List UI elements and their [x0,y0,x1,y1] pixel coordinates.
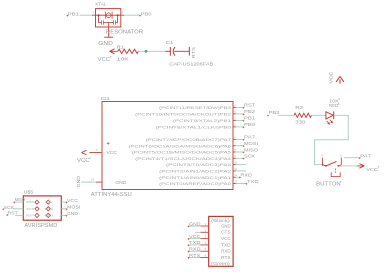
FTDI pin 3 VCC [200,238,208,240]
svg-text:MISO: MISO [15,197,26,202]
junction dot [145,50,148,53]
wire MOSI [236,145,244,147]
wire button to PA7 [344,157,359,159]
svg-text:XTAL: XTAL [95,2,107,8]
svg-text:GND: GND [115,180,126,185]
wire TXD (FTDI) [188,244,200,246]
svg-text:R1: R1 [117,45,125,50]
internal cap right [113,20,115,24]
resonator XTAL body [96,9,121,27]
net label TXD (FTDI) [188,244,190,246]
svg-text:1: 1 [96,148,98,152]
wire RST (ISP) [15,214,23,216]
pin 11 PA2 [233,170,236,172]
origin mark near 10K LED [339,98,340,99]
svg-text:PA7: PA7 [360,154,372,159]
internal cap left [100,20,102,24]
wire LED to button (right/down/left/down) [315,115,349,164]
svg-text:(PCINT10/INT0/OC0A/CKOUT)PB2: (PCINT10/INT0/OC0A/CKOUT)PB2 [135,112,232,117]
svg-text:TXD: TXD [189,240,201,245]
junction dot left [98,14,100,16]
svg-text:VCC: VCC [67,198,79,203]
svg-text:5: 5 [234,110,236,114]
svg-text:PB2: PB2 [269,110,281,115]
wire R2 to LED [312,114,326,116]
ISP pad RST [35,213,39,217]
wire GND pin 14 [81,181,96,183]
wire RXD [236,176,240,178]
wire unlabeled stub [236,164,246,166]
button S1 pin 2 [340,158,342,165]
svg-text:RST: RST [244,103,255,108]
wire button to VCC [339,165,357,167]
svg-text:MISO: MISO [26,200,35,204]
svg-text:2: 2 [340,154,342,158]
power VCC symbol top right [336,76,344,83]
pin 2 resonator to ground [108,27,110,37]
svg-text:(PCINT4/T1/SCL/USCK/ADC4)PA4: (PCINT4/T1/SCL/USCK/ADC4)PA4 [135,156,232,161]
svg-text:(Black): (Black) [211,218,230,223]
svg-text:VCC: VCC [328,71,333,84]
svg-text:MISO: MISO [244,147,258,152]
svg-text:TXD: TXD [221,242,231,247]
svg-text:GND: GND [45,214,54,218]
svg-text:13: 13 [234,180,238,184]
ISP pad GND [46,213,50,217]
svg-text:2: 2 [205,228,207,232]
wire PB0 [236,126,244,128]
svg-text:RST: RST [26,214,34,218]
origin mark near VCC pin1 [90,158,91,159]
wire PB2 to R2 [278,114,294,116]
svg-text:5: 5 [205,247,207,251]
wire RTS (FTDI) [188,257,200,259]
net label RXD [239,177,241,179]
power VCC arrow (left) [110,49,118,54]
svg-text:(PCINT8/XTAL1/CLKI)PB0: (PCINT8/XTAL1/CLKI)PB0 [156,125,232,130]
pin 10 PA3 [233,164,236,166]
net label PB2 (LED) [267,115,269,117]
svg-text:C1: C1 [166,40,174,45]
wire MISO (ISP) [15,201,24,203]
svg-text:U$5: U$5 [24,190,34,195]
junction dot right [117,14,119,16]
pin 3 PB1 [233,119,236,121]
pin 13 PA0 [233,183,236,185]
junction dot at button pin 4 [322,164,324,166]
net label VCC (FTDI) [188,238,190,240]
net label MISO [243,151,245,153]
svg-text:VCC: VCC [189,234,201,239]
connector FTDI body [209,216,233,266]
pin 4 PB3 [233,106,236,108]
svg-text:GND: GND [221,223,231,228]
svg-text:2: 2 [234,123,236,127]
IC origin cross [107,142,110,145]
svg-text:11: 11 [234,167,237,171]
svg-text:1: 1 [92,11,94,15]
svg-text:330: 330 [295,120,306,125]
net label SCK [243,158,245,160]
svg-text:8: 8 [234,148,236,152]
wire PB1 [236,119,244,121]
svg-text:RTS: RTS [191,47,196,58]
svg-text:VCC: VCC [366,167,378,172]
pin 3 resonator stub [121,14,125,16]
wire SCK (ISP) [13,208,23,210]
svg-text:ATTINY44-SSU: ATTINY44-SSU [91,192,132,198]
net label PA7 (button) [359,157,361,159]
internal wires resonator [99,15,118,27]
button frame [331,169,340,177]
origin mark near VCC R1 [110,56,111,57]
svg-text:(PCINT2/AIN1/ADC2)PA2: (PCINT2/AIN1/ADC2)PA2 [159,169,232,174]
svg-text:(PCINT9/XTAL2)PB1: (PCINT9/XTAL2)PB1 [173,118,232,123]
svg-text:(PCINT6/OC1A/SDA/MISO/ADC6)PA6: (PCINT6/OC1A/SDA/MISO/ADC6)PA6 [128,143,232,148]
svg-text:GND: GND [189,221,201,226]
svg-text:14: 14 [91,178,95,182]
net label TXD [246,183,248,185]
net label PB1 [243,120,245,122]
power VCC arrow at pin 1 [82,150,87,154]
svg-text:VCC: VCC [107,150,118,155]
resistor R1 [118,49,139,53]
svg-text:R2: R2 [295,105,304,110]
svg-text:10K: 10K [117,57,129,62]
pin 7 PA6 [233,145,236,147]
wire PA7 [236,138,244,140]
net label RST [243,107,245,109]
net label RTS (FTDI) [188,257,190,259]
pin 1 resonator stub [92,14,96,16]
crystal circle [106,13,111,18]
svg-text:GND: GND [98,41,113,47]
wire CTS stub (FTDI) [195,231,200,233]
net label PB0 [139,15,141,17]
button contacts and lever [323,165,342,166]
svg-text:9: 9 [234,154,236,158]
net label VCC (ISP) [66,202,68,204]
wire PB2 [236,113,244,115]
svg-text:PB0: PB0 [141,11,153,16]
pin 2 PB0 [233,126,236,128]
svg-text:10: 10 [234,161,238,165]
button S1 pin 4 [322,158,324,165]
net label PB1 [66,15,68,17]
resistor R2 [294,113,312,117]
svg-text:(PCINT3/T0/ADC3)PA3: (PCINT3/T0/ADC3)PA3 [166,162,232,167]
svg-text:RTS: RTS [189,253,201,258]
svg-text:1: 1 [205,222,207,226]
pin 5 PB2 [233,113,236,115]
svg-text:(PCINT5/OC1B/MISO/DO/ADC5)PA5: (PCINT5/OC1B/MISO/DO/ADC5)PA5 [132,150,232,155]
svg-text:BUTTON: BUTTON [316,181,341,187]
LED LED1 [326,112,334,119]
FTDI pin 5 RXD [200,250,208,252]
svg-text:CAP-US1206FAB: CAP-US1206FAB [169,62,213,68]
pin 1 VCC of IC [89,152,102,154]
wire PB1 to resonator [80,14,93,16]
net label RST (ISP) [6,214,8,216]
svg-text:4: 4 [321,154,323,158]
origin mark near BUTTON [340,181,341,182]
svg-text:MOSI: MOSI [244,141,258,146]
wire TXD [236,183,247,185]
net flag bar RTS [188,47,190,55]
wire R1 to C1 [138,50,165,52]
svg-text:SCK: SCK [26,207,34,211]
wire GND (FTDI) [188,225,200,227]
net label MISO (ISP) [13,202,15,204]
svg-text:VCC: VCC [77,158,90,164]
net label GND (FTDI) [188,225,190,227]
net label PB2 [243,113,245,115]
svg-text:PB1: PB1 [68,11,80,16]
pin 6 PA7 [233,138,236,140]
ISP pad MOSI [46,207,50,211]
capacitor C1 [165,50,170,52]
IC IC1 ATTINY44 body [102,102,233,190]
svg-text:CTS: CTS [221,230,231,235]
LED emission arrows [327,120,333,125]
svg-text:RST: RST [8,210,18,215]
pin 12 PA1 [233,176,236,178]
svg-text:AVRISPSMD: AVRISPSMD [24,223,57,229]
connector U$5 AVRISP body [23,196,61,220]
svg-text:RXD: RXD [189,247,201,252]
svg-text:VCC: VCC [98,57,111,63]
svg-text:RESONATOR: RESONATOR [106,30,143,36]
net label MOSI [243,145,245,147]
pin 8 PA5 [233,151,236,153]
svg-text:SCK: SCK [4,205,16,210]
svg-text:IC1: IC1 [101,96,111,101]
wire MOSI (ISP right) [61,208,66,210]
net label GND (ISP) [66,215,68,217]
svg-text:GND: GND [76,175,81,187]
svg-text:PB2: PB2 [244,109,256,114]
svg-text:MOSI: MOSI [67,205,81,210]
net label SCK (ISP) [2,208,4,210]
svg-text:(PCINT1/AIN0/ADC1)PA1: (PCINT1/AIN0/ADC1)PA1 [159,175,232,180]
pin 14 GND of IC [96,181,102,183]
wire GND (ISP right) [61,214,66,216]
svg-text:(PCINT7/ICP/OC0B/ADC7)PA7: (PCINT7/ICP/OC0B/ADC7)PA7 [146,137,233,142]
svg-text:3: 3 [122,11,124,15]
wire resonator to PB0 [124,14,139,16]
wire internal resonator horizontal [96,14,121,16]
svg-text:6: 6 [234,135,236,139]
net label RXD (FTDI) [188,251,190,253]
svg-text:6: 6 [205,254,207,258]
svg-text:3: 3 [205,235,207,239]
svg-text:(PCINT11/RESET/DW)PB3: (PCINT11/RESET/DW)PB3 [159,105,232,110]
svg-text:(Green): (Green) [211,261,230,266]
wire SCK [236,157,244,159]
wire RST [236,106,244,108]
ISP pad MISO [35,200,39,204]
svg-text:PB0: PB0 [244,122,256,127]
svg-text:RXD: RXD [240,173,252,178]
power VCC arrow (right) [357,164,364,169]
FTDI pin 4 TXD [200,244,208,246]
svg-text:3: 3 [234,116,236,120]
svg-text:RED: RED [329,103,339,108]
ISP pad SCK [35,207,39,211]
pin 9 PA4 [233,157,236,159]
crystal plates [104,12,106,19]
FTDI pin 1 GND [200,225,208,227]
net label MOSI (ISP) [66,208,68,210]
wire MISO [236,151,244,153]
ground symbol [104,36,113,38]
svg-text:RTS: RTS [221,255,231,260]
svg-text:SCK: SCK [244,154,256,159]
svg-text:TXD: TXD [247,179,259,184]
svg-text:12: 12 [234,173,238,177]
svg-text:PA7: PA7 [244,135,256,140]
wire VCC (FTDI) [188,238,200,240]
svg-text:MOSI: MOSI [45,207,53,211]
svg-text:7: 7 [234,142,236,146]
net label PA7 [243,139,245,141]
svg-text:PB1: PB1 [244,116,256,121]
svg-text:RXD: RXD [221,249,231,254]
FTDI pin 2 CTS [200,231,208,233]
svg-text:VCC: VCC [45,200,54,204]
wire unlabeled stub [236,170,246,172]
svg-text:VCC: VCC [221,236,231,241]
wire RXD (FTDI) [188,250,200,252]
FTDI pin 6 RTS [200,257,208,259]
svg-text:4: 4 [205,241,207,245]
svg-text:4: 4 [234,103,236,107]
origin mark near RED [338,103,339,104]
net label PB0 [243,126,245,128]
ISP pad VCC [46,200,50,204]
svg-text:(PCINT0/AREF/ADC0)PA0: (PCINT0/AREF/ADC0)PA0 [159,181,232,186]
wire VCC (ISP right) [61,201,66,203]
origin mark near VCC button [378,166,379,167]
svg-text:GND: GND [67,211,79,216]
